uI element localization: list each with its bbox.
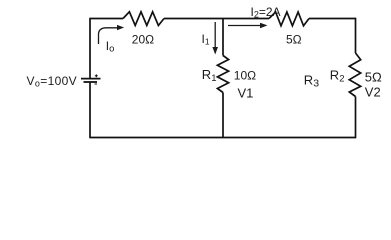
resistor R2 5Ω (right vertical): [349, 53, 360, 97]
svg-text:Io: Io: [106, 39, 115, 55]
wire: left vertical lower (battery to bottom-left corner): [89, 83, 91, 138]
svg-text:20Ω: 20Ω: [132, 33, 154, 47]
svg-text:5Ω: 5Ω: [365, 69, 382, 84]
svg-text:R2: R2: [330, 68, 345, 85]
wire: top-middle segment (20 ohm to 5 ohm resistor, through middle node): [164, 18, 269, 20]
svg-text:10Ω: 10Ω: [234, 69, 256, 83]
svg-text:I2=2A: I2=2A: [251, 5, 281, 20]
wire: top-left segment (node A to 20 ohm resistor): [90, 18, 123, 20]
svg-text:5Ω: 5Ω: [286, 32, 302, 46]
svg-text:V1: V1: [238, 86, 254, 101]
wire: left vertical upper (node A down to battery): [89, 18, 91, 78]
wire: right vertical lower (R2 to bottom-right corner): [355, 97, 357, 139]
battery polarity mark +: [95, 74, 98, 77]
wire: right vertical upper (top-right corner to R2): [355, 18, 357, 53]
wire: middle branch lower (R1 to bottom rail): [222, 93, 224, 138]
current arrow I2 (right, toward 5 ohm): [228, 25, 261, 27]
current arrow I1 (down, into R1 branch): [214, 22, 216, 49]
svg-text:V2: V2: [365, 85, 381, 100]
resistor R1 10Ω (middle vertical): [217, 56, 228, 93]
wire: middle branch upper (top node to R1): [222, 19, 224, 56]
wire: bottom rail: [89, 137, 356, 139]
svg-text:Vo=100V: Vo=100V: [27, 74, 78, 89]
svg-text:R3: R3: [304, 73, 319, 90]
battery polarity mark -: [95, 83, 98, 85]
resistor 5Ω (top right series): [269, 12, 309, 26]
current arrow I0 (curved, pointing right): [99, 28, 118, 44]
voltage source Vo (battery plates): [81, 79, 101, 82]
wire: top-right segment to right corner: [309, 18, 356, 20]
resistor 20Ω (top series): [123, 12, 164, 26]
svg-text:R1: R1: [202, 67, 217, 84]
svg-text:I1: I1: [202, 32, 210, 47]
